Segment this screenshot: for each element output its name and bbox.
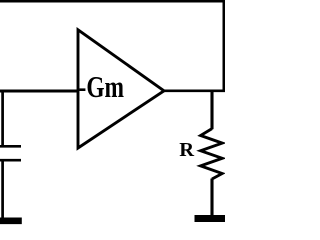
resistor R zigzag (201, 129, 223, 179)
wire right-edge vertical (223, 0, 226, 91)
wire input to amplifier (0, 90, 79, 93)
capacitor C (0, 146, 21, 160)
svg-text:R: R (179, 139, 194, 161)
wire capacitor to ground (1, 160, 4, 219)
wire resistor to ground (210, 179, 213, 218)
ground right (195, 215, 226, 222)
wire top border (0, 0, 225, 3)
wire output to resistor (210, 90, 213, 130)
wire output (162, 89, 225, 92)
op-amp U1 triangle (78, 30, 164, 148)
ground left (0, 218, 22, 225)
svg-text:-Gm: -Gm (79, 70, 125, 104)
wire down to capacitor (1, 90, 4, 147)
